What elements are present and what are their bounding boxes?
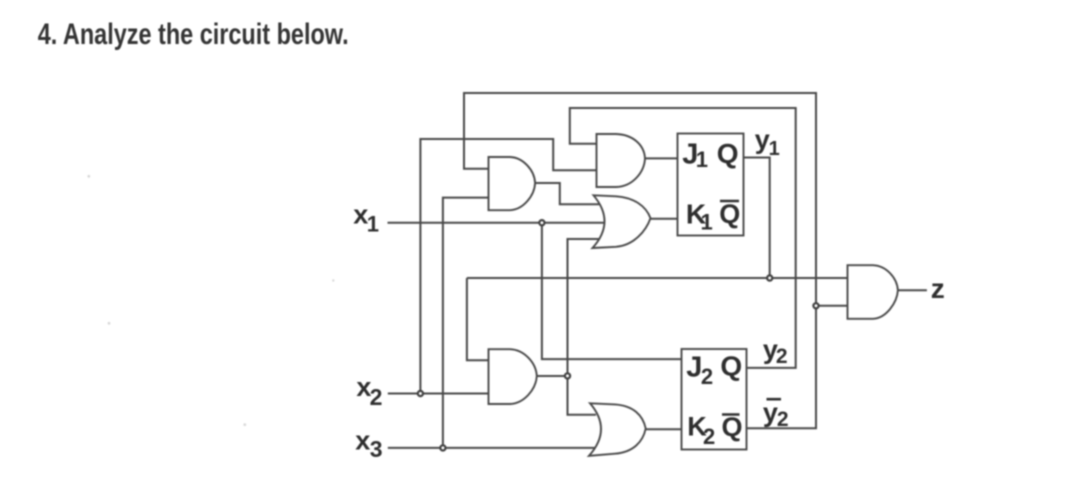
svg-text:4. Analyze the circuit below.: 4. Analyze the circuit below. <box>38 18 349 51</box>
svg-text:y: y <box>763 398 778 428</box>
svg-text:x: x <box>355 425 370 455</box>
svg-text:3: 3 <box>370 436 383 462</box>
svg-text:2: 2 <box>777 408 789 431</box>
svg-text:2: 2 <box>370 384 383 410</box>
svg-text:z: z <box>931 273 945 304</box>
svg-text:2: 2 <box>776 345 788 368</box>
svg-text:1: 1 <box>696 147 708 172</box>
svg-text:1: 1 <box>769 138 780 160</box>
svg-text:Q: Q <box>722 412 743 442</box>
svg-text:2: 2 <box>701 364 713 389</box>
svg-text:Q: Q <box>719 199 740 229</box>
svg-text:2: 2 <box>703 424 715 449</box>
svg-text:y: y <box>755 125 770 155</box>
svg-text:1: 1 <box>701 209 713 234</box>
svg-text:1: 1 <box>367 211 379 236</box>
svg-text:Q: Q <box>717 138 739 169</box>
svg-text:Q: Q <box>720 351 742 382</box>
